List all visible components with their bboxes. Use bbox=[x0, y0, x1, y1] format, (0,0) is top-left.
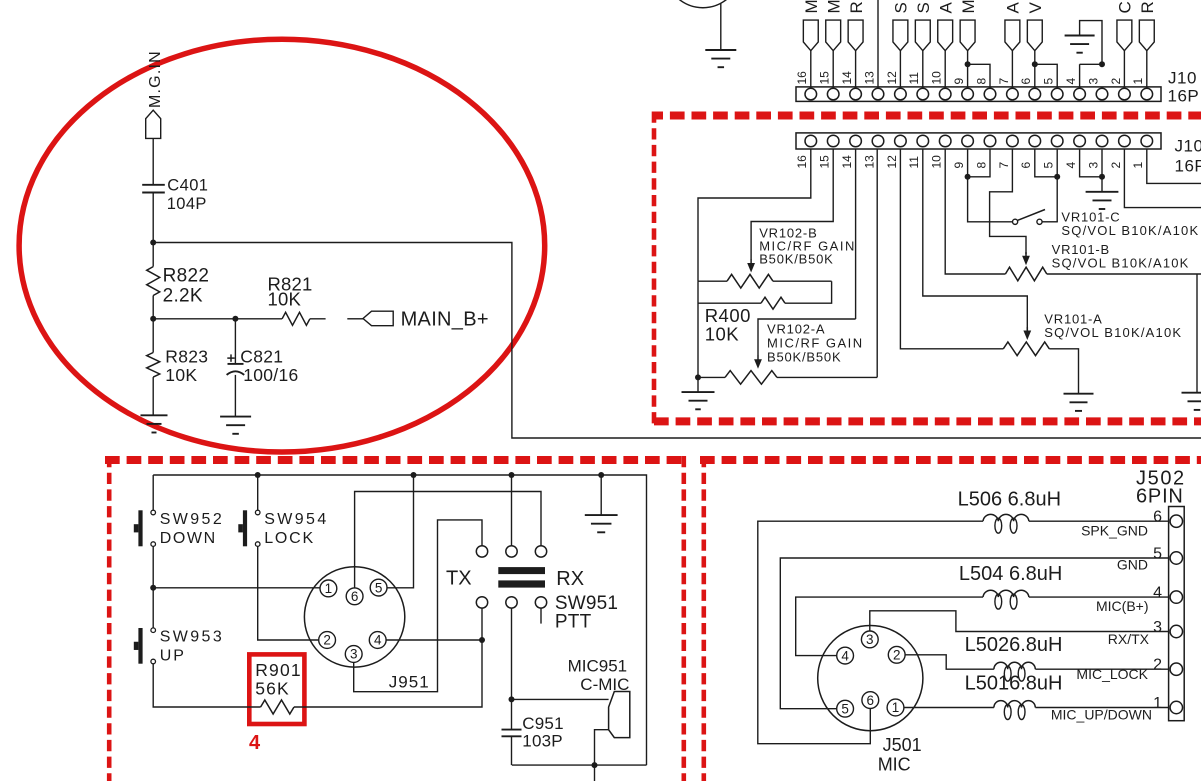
svg-text:3: 3 bbox=[1086, 78, 1100, 85]
pin 5 of J501 bbox=[837, 700, 854, 717]
svg-text:4: 4 bbox=[374, 633, 382, 648]
svg-text:9: 9 bbox=[952, 78, 966, 85]
dashed highlight box 3 (J501/J502 section) bbox=[701, 456, 706, 781]
resistor R400 bbox=[761, 297, 785, 309]
svg-text:1: 1 bbox=[325, 581, 333, 596]
ground (VR bus) bbox=[682, 391, 715, 393]
capacitor C401 bbox=[142, 184, 165, 186]
pin 6 of J502 bbox=[1170, 515, 1182, 527]
connector J501 body bbox=[818, 626, 923, 731]
svg-text:L506 6.8uH: L506 6.8uH bbox=[958, 489, 1061, 511]
wire bbox=[152, 546, 154, 587]
wire R901 to J951-4/TX bbox=[294, 608, 482, 707]
svg-text:6: 6 bbox=[1019, 78, 1033, 85]
wire pin6-pin5 (lower) bbox=[1035, 149, 1057, 177]
ground at pin3 (lower) bbox=[1086, 191, 1119, 193]
net tag pin 9 (M...) bbox=[960, 20, 975, 51]
svg-text:10K: 10K bbox=[165, 365, 197, 385]
wire MIC951 bottom bbox=[595, 730, 609, 765]
svg-text:R901: R901 bbox=[255, 660, 302, 680]
ground bbox=[705, 49, 736, 51]
ground under R823 bbox=[141, 414, 168, 416]
svg-text:SW954: SW954 bbox=[264, 511, 328, 528]
svg-text:B50K/B50K: B50K/B50K bbox=[759, 252, 833, 267]
wire pin5 stem bbox=[1056, 149, 1058, 222]
pin 3 of J502 bbox=[1170, 625, 1182, 637]
svg-text:C-MIC: C-MIC bbox=[580, 675, 629, 694]
svg-text:3: 3 bbox=[1086, 162, 1100, 169]
node junction J951-5 tap bbox=[411, 472, 417, 478]
node junction pin5 (lower) bbox=[1054, 174, 1060, 180]
wire pin3 stem bbox=[1101, 149, 1103, 192]
svg-text:1: 1 bbox=[1131, 78, 1145, 85]
net tag pin 2 (C...) bbox=[1117, 20, 1132, 51]
svg-text:6: 6 bbox=[1019, 162, 1033, 169]
node junction C951/MIC951 bbox=[509, 696, 515, 702]
svg-text:C401: C401 bbox=[167, 177, 208, 195]
wire J951-3 to TX top bbox=[354, 520, 482, 692]
svg-text:16: 16 bbox=[795, 155, 809, 169]
svg-text:56K: 56K bbox=[255, 679, 290, 699]
svg-text:A: A bbox=[936, 2, 955, 14]
svg-text:V: V bbox=[1026, 2, 1045, 14]
switch TX/RX contacts bbox=[476, 546, 487, 557]
svg-text:9: 9 bbox=[952, 162, 966, 169]
pin 6 of J951 bbox=[346, 588, 363, 605]
svg-text:16P: 16P bbox=[1168, 87, 1200, 106]
pin 5 of J502 bbox=[1170, 552, 1182, 564]
svg-text:UP: UP bbox=[160, 648, 186, 665]
wire to edge bbox=[594, 765, 596, 781]
potentiometer VR101-B bbox=[1005, 267, 1046, 281]
svg-text:MIC951: MIC951 bbox=[568, 657, 628, 676]
svg-text:104P: 104P bbox=[167, 195, 207, 213]
wire bbox=[152, 475, 154, 510]
svg-text:6: 6 bbox=[351, 589, 359, 604]
dashed highlight box 1 (VR section) bbox=[654, 112, 1201, 120]
svg-text:S: S bbox=[914, 2, 933, 13]
svg-text:PTT: PTT bbox=[555, 612, 592, 633]
pin 1 of J951 bbox=[320, 580, 337, 597]
svg-text:SPK_GND: SPK_GND bbox=[1081, 523, 1148, 539]
svg-text:MIC: MIC bbox=[878, 755, 911, 775]
wire to J951-4 bbox=[386, 639, 482, 641]
svg-text:5: 5 bbox=[1153, 546, 1162, 563]
wire bbox=[152, 138, 154, 184]
svg-text:C951: C951 bbox=[522, 714, 563, 733]
svg-text:10K: 10K bbox=[268, 289, 302, 310]
wire RX/TX pin3 bbox=[870, 611, 1169, 632]
wire bbox=[153, 318, 282, 320]
ground at pins 3/4 (upper) bbox=[1065, 35, 1095, 37]
switch SW952 (DOWN) bbox=[138, 510, 142, 546]
pin 2 of J502 bbox=[1170, 663, 1182, 675]
svg-text:R: R bbox=[1138, 1, 1157, 13]
svg-text:100/16: 100/16 bbox=[243, 365, 298, 385]
svg-text:DOWN: DOWN bbox=[160, 530, 217, 547]
wire bbox=[257, 475, 259, 510]
ground under VR101-A bbox=[1064, 393, 1094, 395]
connector J10 16P (upper) bbox=[796, 87, 1161, 102]
node junction at C401/R822 bbox=[150, 240, 156, 246]
svg-text:15: 15 bbox=[818, 71, 832, 85]
svg-text:10: 10 bbox=[930, 155, 944, 169]
svg-text:L5016.8uH: L5016.8uH bbox=[965, 673, 1063, 695]
node junction at TX bottom bbox=[479, 637, 485, 643]
svg-text:M: M bbox=[959, 0, 978, 14]
microphone MIC951 C-MIC bbox=[609, 692, 630, 738]
svg-text:LOCK: LOCK bbox=[264, 530, 315, 547]
svg-text:M: M bbox=[802, 0, 821, 14]
pin 4 of J951 bbox=[369, 632, 386, 649]
svg-text:4: 4 bbox=[1064, 78, 1078, 85]
svg-text:5: 5 bbox=[1042, 78, 1056, 85]
svg-text:3: 3 bbox=[1153, 619, 1162, 636]
resistor R823 bbox=[147, 353, 160, 378]
svg-text:6PIN: 6PIN bbox=[1136, 486, 1184, 508]
svg-text:5: 5 bbox=[375, 580, 383, 595]
svg-text:MIC/RF GAIN: MIC/RF GAIN bbox=[767, 336, 864, 351]
pin 4 of J501 bbox=[837, 647, 854, 664]
svg-text:MIC(B+): MIC(B+) bbox=[1096, 598, 1149, 614]
svg-text:1: 1 bbox=[1153, 695, 1162, 712]
svg-text:13: 13 bbox=[862, 155, 876, 169]
wire bbox=[720, 3, 722, 50]
svg-text:2: 2 bbox=[1109, 78, 1123, 85]
microphone body (cut off at top) bbox=[665, 0, 741, 8]
svg-text:R: R bbox=[847, 1, 866, 13]
wire pin7 to VR101-B wiper bbox=[990, 149, 1026, 254]
wire mid bottom to C951 bbox=[511, 608, 513, 699]
net tag pin 6 (V...) bbox=[1027, 20, 1042, 51]
svg-text:J10: J10 bbox=[1168, 69, 1197, 88]
node junction pin3 (lower) bbox=[1099, 174, 1105, 180]
svg-text:SQ/VOL B10K/A10K: SQ/VOL B10K/A10K bbox=[1061, 223, 1199, 238]
capacitor C951 bbox=[511, 699, 513, 729]
net tag pin 12 (S...) bbox=[893, 20, 908, 51]
wire MAIN_B+ feed to lower-right bbox=[153, 243, 1201, 439]
wire bbox=[152, 588, 154, 628]
node junction C821 tap bbox=[232, 316, 238, 322]
node junction SW954 tap bbox=[255, 472, 261, 478]
pin 2 of J501 bbox=[888, 646, 905, 663]
wire SW954 to J951-2 bbox=[258, 546, 319, 640]
svg-text:7: 7 bbox=[997, 78, 1011, 85]
port MAIN_B+ bbox=[363, 311, 393, 326]
svg-text:8: 8 bbox=[974, 78, 988, 85]
switch SW953 (UP) bbox=[138, 628, 142, 664]
svg-text:1: 1 bbox=[892, 700, 900, 715]
svg-text:C821: C821 bbox=[240, 347, 283, 367]
node junction pin 6 (upper) bbox=[1032, 61, 1038, 67]
net tag pin 11 (S...) bbox=[915, 20, 930, 51]
net tag pin 15 (M...) bbox=[826, 20, 841, 51]
svg-text:7: 7 bbox=[997, 162, 1011, 169]
wire pin16 to VR102-B bbox=[698, 149, 811, 281]
potentiometer VR102-A bbox=[725, 371, 777, 385]
svg-text:RX/TX: RX/TX bbox=[1108, 631, 1150, 647]
svg-text:14: 14 bbox=[840, 155, 854, 169]
svg-text:12: 12 bbox=[885, 155, 899, 169]
node junction VR102-A left bbox=[695, 374, 701, 380]
node junction ground tap bbox=[598, 472, 604, 478]
svg-text:SQ/VOL B10K/A10K: SQ/VOL B10K/A10K bbox=[1052, 256, 1190, 271]
node junction SW953 tap bbox=[150, 585, 156, 591]
svg-text:3: 3 bbox=[866, 632, 874, 647]
inductor L504 bbox=[983, 590, 1029, 597]
net tag pin 16 (M...) bbox=[803, 20, 818, 51]
svg-text:RX: RX bbox=[556, 568, 584, 590]
wire pin13 (upper) bbox=[877, 0, 879, 87]
pin 5 of J951 bbox=[370, 579, 387, 596]
net tag pin 1 (R...) bbox=[1139, 20, 1154, 51]
resistor R821 bbox=[282, 312, 310, 325]
wire pin1 out right bbox=[1147, 149, 1201, 183]
svg-text:B50K/B50K: B50K/B50K bbox=[767, 350, 841, 365]
svg-text:J951: J951 bbox=[389, 672, 430, 691]
svg-text:MAIN_B+: MAIN_B+ bbox=[401, 309, 489, 331]
connector J502 body bbox=[1169, 507, 1185, 721]
svg-text:2: 2 bbox=[1109, 162, 1123, 169]
svg-text:6: 6 bbox=[867, 693, 875, 708]
svg-text:C: C bbox=[1116, 1, 1135, 13]
wire pin11 to VR101-A wiper bbox=[923, 149, 1028, 330]
switch VR101-C bbox=[1013, 219, 1018, 224]
svg-text:TX: TX bbox=[446, 568, 472, 590]
svg-text:GND: GND bbox=[1117, 557, 1148, 573]
ground under C821 bbox=[220, 416, 251, 418]
svg-text:5: 5 bbox=[1042, 162, 1056, 169]
svg-text:6: 6 bbox=[1153, 509, 1162, 526]
port M.G.IN bbox=[146, 110, 161, 138]
svg-text:L5026.8uH: L5026.8uH bbox=[965, 634, 1063, 656]
inductor L501 bbox=[994, 701, 1035, 708]
svg-text:2: 2 bbox=[893, 648, 901, 663]
wire bbox=[152, 377, 154, 415]
node junction pin 3 (upper) bbox=[1099, 61, 1105, 67]
svg-text:10: 10 bbox=[930, 71, 944, 85]
wire top bus bbox=[153, 475, 646, 765]
potentiometer VR102-B bbox=[727, 274, 773, 288]
svg-text:8: 8 bbox=[974, 162, 988, 169]
wire ground bus left bbox=[697, 281, 699, 392]
svg-text:R822: R822 bbox=[163, 266, 210, 287]
resistor R901 bbox=[261, 700, 294, 714]
svg-text:14: 14 bbox=[840, 71, 854, 85]
svg-text:16P: 16P bbox=[1175, 157, 1201, 176]
svg-text:SW952: SW952 bbox=[160, 511, 224, 528]
wire ground stub bbox=[600, 475, 602, 515]
svg-text:R823: R823 bbox=[165, 347, 208, 367]
switch SW954 (LOCK) bbox=[243, 510, 247, 546]
svg-text:M.G.IN: M.G.IN bbox=[147, 50, 164, 108]
svg-text:1: 1 bbox=[1131, 162, 1145, 169]
pin 4 of J502 bbox=[1170, 591, 1182, 603]
svg-text:10K: 10K bbox=[705, 324, 740, 345]
wire pins 9-8 (upper) bbox=[968, 64, 990, 87]
inductor L502 bbox=[994, 662, 1035, 669]
wire bbox=[152, 193, 154, 267]
wire TX mid down bbox=[511, 475, 513, 546]
svg-text:11: 11 bbox=[907, 72, 921, 85]
wire bbox=[152, 296, 154, 353]
pin 1 of J502 bbox=[1170, 701, 1182, 713]
switch SW951 (PTT) bbox=[540, 608, 542, 624]
svg-text:2.2K: 2.2K bbox=[163, 286, 203, 307]
svg-text:A: A bbox=[1004, 2, 1023, 14]
wire VR102-B to R400 bbox=[785, 281, 832, 303]
net tag pin 7 (A...) bbox=[1005, 20, 1020, 51]
svg-text:L504 6.8uH: L504 6.8uH bbox=[959, 563, 1062, 585]
svg-text:16: 16 bbox=[795, 71, 809, 85]
pin 1 of J501 bbox=[887, 699, 904, 716]
svg-text:SQ/VOL B10K/A10K: SQ/VOL B10K/A10K bbox=[1044, 325, 1182, 340]
svg-text:103P: 103P bbox=[522, 732, 563, 751]
svg-text:3: 3 bbox=[350, 647, 358, 662]
svg-text:J10: J10 bbox=[1175, 137, 1201, 156]
svg-text:12: 12 bbox=[885, 71, 899, 85]
svg-text:4: 4 bbox=[841, 648, 849, 663]
node junction pin 9 (upper) bbox=[965, 61, 971, 67]
node junction bottom bbox=[592, 762, 598, 768]
pin 3 of J501 bbox=[861, 631, 878, 648]
wire pins 4-3 (upper) bbox=[1080, 64, 1102, 87]
wire pin3 to ground loop bbox=[1080, 21, 1102, 65]
wire GND pin5 bbox=[780, 558, 1169, 709]
node junction TX mid tap bbox=[509, 472, 515, 478]
svg-text:J501: J501 bbox=[883, 735, 922, 755]
ground (top of box) bbox=[585, 514, 618, 516]
svg-text:S: S bbox=[892, 2, 911, 13]
capacitor C821 (electrolytic) bbox=[234, 319, 236, 364]
potentiometer VR101-A bbox=[1003, 342, 1049, 356]
connector J10 16P (lower) bbox=[796, 133, 1161, 149]
connector J951 body bbox=[304, 567, 404, 667]
net tag pin 10 (A...) bbox=[938, 20, 953, 51]
svg-text:2: 2 bbox=[323, 633, 331, 648]
wire pin10 to VR101-B bbox=[945, 149, 1005, 274]
pin 3 of J951 bbox=[345, 646, 362, 663]
svg-text:4: 4 bbox=[249, 732, 261, 754]
net tag pin 14 (R...) bbox=[848, 20, 863, 51]
wire J951-6 to RX top bbox=[355, 492, 541, 588]
svg-text:13: 13 bbox=[862, 71, 876, 85]
wire bbox=[310, 318, 326, 320]
svg-text:MIC_LOCK: MIC_LOCK bbox=[1076, 666, 1148, 682]
svg-text:SW953: SW953 bbox=[160, 629, 224, 646]
wire pins 6-5 (upper) bbox=[1035, 64, 1057, 87]
wire to J951-1 bbox=[153, 587, 320, 589]
pin 6 of J501 bbox=[862, 692, 879, 709]
highlight box around R901 (red) bbox=[249, 654, 304, 724]
node junction R822/R823/R821 bbox=[150, 316, 156, 322]
svg-text:11: 11 bbox=[907, 156, 921, 169]
wire pin4-pin3 (lower) bbox=[1080, 149, 1102, 177]
ground right edge (cut) bbox=[1196, 274, 1198, 393]
svg-text:5: 5 bbox=[841, 701, 849, 716]
highlight ellipse (red) bbox=[19, 39, 545, 452]
svg-text:4: 4 bbox=[1153, 585, 1162, 602]
svg-text:2: 2 bbox=[1153, 657, 1162, 674]
resistor R822 bbox=[147, 267, 160, 296]
wire pin9 stem bbox=[968, 149, 1013, 222]
dashed highlight box 2 (keypad/J951 section) bbox=[107, 456, 112, 781]
wire SW953 to R901 bbox=[153, 664, 260, 707]
svg-text:15: 15 bbox=[818, 155, 832, 169]
wire pin9-pin8 (lower) bbox=[968, 149, 990, 177]
wire pin2 out right bbox=[1124, 149, 1201, 208]
wire pin12 to VR101-A bbox=[900, 149, 1003, 349]
svg-text:M: M bbox=[824, 0, 843, 14]
node junction pin9 (lower) bbox=[965, 174, 971, 180]
svg-text:VR102-A: VR102-A bbox=[767, 322, 825, 337]
wire to MIC951 bbox=[512, 698, 609, 700]
svg-text:4: 4 bbox=[1064, 162, 1078, 169]
svg-text:MIC_UP/DOWN: MIC_UP/DOWN bbox=[1051, 707, 1152, 723]
pin 2 of J951 bbox=[319, 632, 336, 649]
inductor L506 bbox=[983, 514, 1029, 521]
wire J951-5 up bbox=[387, 475, 414, 588]
